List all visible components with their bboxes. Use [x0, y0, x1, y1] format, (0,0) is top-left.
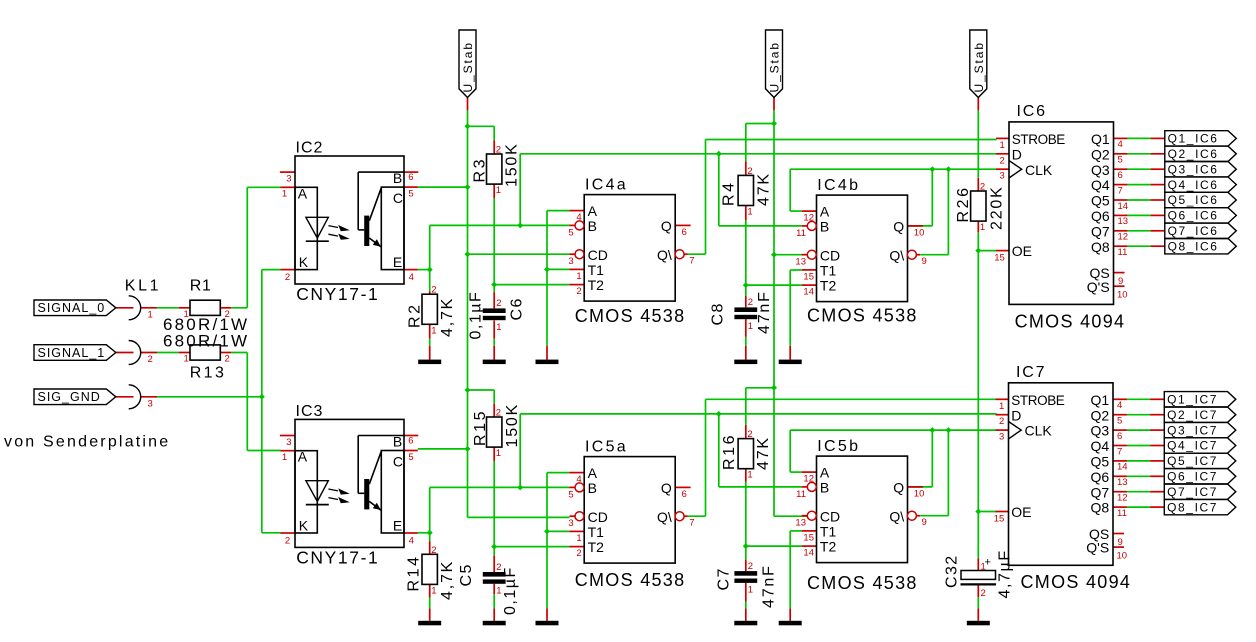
svg-text:Q: Q	[893, 480, 904, 496]
svg-text:OE: OE	[1012, 243, 1032, 259]
svg-text:B: B	[393, 170, 402, 186]
svg-text:12: 12	[1117, 493, 1128, 504]
svg-text:2: 2	[496, 562, 501, 573]
svg-text:5: 5	[568, 227, 573, 238]
svg-text:4: 4	[409, 535, 414, 546]
svg-text:T2: T2	[820, 278, 837, 294]
svg-text:4: 4	[1118, 139, 1123, 150]
svg-text:1: 1	[576, 271, 581, 282]
svg-text:A: A	[298, 185, 308, 201]
svg-text:IC7: IC7	[1016, 364, 1046, 381]
svg-text:Q8: Q8	[1091, 239, 1110, 255]
svg-text:B: B	[393, 434, 402, 450]
svg-text:12: 12	[803, 213, 814, 224]
svg-text:13: 13	[1118, 216, 1129, 227]
svg-text:SIGNAL_1: SIGNAL_1	[38, 346, 106, 360]
svg-text:Q8_IC6: Q8_IC6	[1168, 239, 1219, 253]
svg-text:4: 4	[1117, 400, 1122, 411]
svg-text:STROBE: STROBE	[1011, 393, 1065, 408]
svg-text:10: 10	[914, 228, 925, 239]
svg-text:Q1: Q1	[1091, 392, 1110, 408]
svg-text:B: B	[820, 219, 829, 235]
svg-text:T1: T1	[820, 263, 837, 279]
svg-text:Q7: Q7	[1091, 484, 1110, 500]
svg-text:R13: R13	[190, 364, 227, 381]
svg-text:+: +	[985, 557, 991, 569]
svg-text:CLK: CLK	[1025, 423, 1053, 439]
svg-text:KL1: KL1	[125, 278, 161, 295]
svg-text:9: 9	[1118, 537, 1123, 548]
svg-text:6: 6	[682, 489, 687, 500]
svg-text:Q: Q	[661, 218, 672, 234]
svg-text:Q3_IC6: Q3_IC6	[1168, 162, 1219, 176]
svg-text:Q5_IC7: Q5_IC7	[1167, 454, 1218, 468]
svg-text:6: 6	[408, 172, 413, 183]
svg-text:7: 7	[689, 255, 694, 266]
svg-text:4: 4	[576, 212, 581, 223]
svg-text:CMOS 4538: CMOS 4538	[575, 570, 686, 590]
svg-text:7: 7	[1118, 185, 1123, 196]
svg-text:5: 5	[408, 189, 413, 200]
svg-text:U_Stab: U_Stab	[461, 41, 475, 92]
svg-text:Q5: Q5	[1091, 193, 1110, 209]
svg-text:CMOS 4538: CMOS 4538	[807, 306, 918, 326]
svg-text:1: 1	[980, 222, 985, 233]
svg-text:6: 6	[1117, 431, 1122, 442]
svg-text:U_Stab: U_Stab	[972, 41, 986, 92]
svg-text:Q3_IC7: Q3_IC7	[1167, 423, 1218, 437]
svg-text:1: 1	[747, 470, 752, 481]
svg-text:Q4: Q4	[1091, 177, 1110, 193]
svg-text:Q\: Q\	[889, 247, 904, 263]
svg-text:Q2: Q2	[1091, 407, 1110, 423]
svg-text:Q4_IC6: Q4_IC6	[1168, 178, 1219, 192]
svg-text:14: 14	[1118, 201, 1129, 212]
svg-text:B: B	[820, 480, 829, 496]
svg-text:Q6: Q6	[1091, 208, 1110, 224]
svg-text:10: 10	[914, 489, 925, 500]
svg-text:IC4b: IC4b	[817, 177, 860, 194]
svg-text:1: 1	[148, 309, 153, 320]
svg-text:2: 2	[148, 354, 153, 365]
svg-text:K: K	[299, 254, 309, 270]
svg-text:D: D	[1011, 407, 1021, 423]
svg-text:T2: T2	[588, 539, 605, 555]
svg-text:C: C	[393, 453, 403, 469]
svg-text:3: 3	[286, 174, 291, 185]
svg-text:Q'S: Q'S	[1086, 540, 1109, 556]
svg-text:2: 2	[285, 536, 290, 547]
svg-text:Q6: Q6	[1091, 469, 1110, 485]
svg-text:Q1_IC7: Q1_IC7	[1167, 393, 1218, 407]
svg-text:14: 14	[803, 548, 814, 559]
svg-text:15: 15	[803, 271, 814, 282]
svg-text:680R/1W: 680R/1W	[163, 332, 249, 351]
svg-text:K: K	[299, 518, 309, 534]
svg-text:3: 3	[568, 518, 573, 529]
svg-text:CD: CD	[820, 247, 840, 263]
svg-text:2: 2	[496, 298, 501, 309]
svg-text:1: 1	[748, 321, 753, 332]
svg-text:SIGNAL_0: SIGNAL_0	[38, 301, 106, 315]
svg-text:U_Stab: U_Stab	[768, 41, 782, 92]
svg-text:1: 1	[282, 189, 287, 200]
svg-text:CMOS 4538: CMOS 4538	[807, 573, 918, 593]
svg-text:3: 3	[568, 256, 573, 267]
svg-text:11: 11	[1117, 508, 1127, 519]
svg-text:2: 2	[748, 297, 753, 308]
svg-text:Q\: Q\	[889, 508, 904, 524]
svg-text:C: C	[393, 190, 403, 206]
svg-text:Q8: Q8	[1091, 500, 1110, 516]
svg-text:A: A	[588, 203, 598, 219]
svg-text:R26: R26	[955, 185, 972, 222]
svg-text:R3: R3	[472, 157, 489, 183]
svg-text:2: 2	[496, 408, 501, 419]
svg-text:4: 4	[409, 272, 414, 283]
svg-text:9: 9	[1118, 276, 1123, 287]
svg-text:2: 2	[496, 145, 501, 156]
svg-text:11: 11	[796, 489, 806, 500]
svg-text:2: 2	[431, 545, 436, 556]
svg-text:B: B	[588, 218, 597, 234]
svg-text:Q4_IC7: Q4_IC7	[1167, 439, 1218, 453]
svg-text:R4: R4	[721, 180, 738, 206]
svg-text:Q6_IC6: Q6_IC6	[1168, 209, 1219, 223]
svg-text:1: 1	[282, 452, 287, 463]
svg-text:9: 9	[922, 517, 927, 528]
svg-text:1: 1	[748, 585, 753, 596]
svg-text:Q2_IC6: Q2_IC6	[1168, 147, 1219, 161]
svg-text:2: 2	[225, 354, 230, 365]
svg-text:Q7: Q7	[1091, 223, 1110, 239]
svg-text:1: 1	[747, 207, 752, 218]
svg-text:1: 1	[496, 185, 501, 196]
svg-text:R14: R14	[406, 554, 423, 591]
svg-text:CLK: CLK	[1025, 162, 1053, 178]
svg-text:IC5b: IC5b	[817, 438, 860, 455]
svg-text:13: 13	[795, 518, 806, 529]
svg-text:CMOS 4094: CMOS 4094	[1021, 572, 1132, 592]
svg-text:C5: C5	[458, 563, 475, 586]
svg-text:220K: 220K	[989, 185, 1006, 230]
svg-text:15: 15	[994, 514, 1005, 525]
svg-text:12: 12	[1118, 232, 1129, 243]
svg-text:T1: T1	[820, 524, 837, 540]
svg-text:Q: Q	[661, 480, 672, 496]
svg-text:2: 2	[576, 286, 581, 297]
svg-text:E: E	[393, 254, 402, 270]
svg-text:150K: 150K	[504, 403, 521, 448]
svg-text:14: 14	[1117, 462, 1128, 473]
svg-text:Q2: Q2	[1091, 146, 1110, 162]
svg-text:Q\: Q\	[657, 509, 672, 525]
svg-text:3: 3	[148, 398, 153, 409]
svg-text:47nF: 47nF	[761, 564, 778, 608]
svg-text:13: 13	[1117, 477, 1128, 488]
svg-text:10: 10	[1117, 290, 1128, 301]
svg-text:Q3: Q3	[1091, 423, 1110, 439]
svg-text:R2: R2	[407, 302, 424, 328]
svg-text:5: 5	[568, 489, 573, 500]
svg-text:Q7_IC6: Q7_IC6	[1168, 224, 1219, 238]
svg-text:4,7K: 4,7K	[439, 560, 456, 600]
svg-text:1: 1	[184, 354, 189, 365]
svg-text:47nF: 47nF	[756, 290, 773, 334]
svg-text:IC6: IC6	[1017, 103, 1047, 120]
svg-text:T1: T1	[588, 262, 605, 278]
svg-text:1: 1	[496, 322, 501, 333]
svg-text:47K: 47K	[756, 172, 773, 206]
svg-text:6: 6	[1118, 170, 1123, 181]
svg-text:Q1: Q1	[1091, 131, 1110, 147]
svg-text:2: 2	[748, 561, 753, 572]
svg-text:C8: C8	[710, 302, 727, 325]
svg-text:12: 12	[803, 474, 814, 485]
svg-text:9: 9	[922, 256, 927, 267]
svg-text:2: 2	[431, 285, 436, 296]
svg-text:4,7µF: 4,7µF	[997, 549, 1014, 598]
svg-text:A: A	[820, 465, 830, 481]
svg-text:von Senderplatine: von Senderplatine	[4, 434, 170, 451]
svg-text:Q1_IC6: Q1_IC6	[1168, 132, 1219, 146]
svg-text:CMOS 4094: CMOS 4094	[1015, 311, 1126, 331]
svg-text:1: 1	[496, 448, 501, 459]
svg-text:Q2_IC7: Q2_IC7	[1167, 408, 1218, 422]
svg-text:3: 3	[1000, 171, 1005, 182]
svg-text:CNY17-1: CNY17-1	[296, 284, 379, 304]
svg-text:6: 6	[682, 227, 687, 238]
svg-text:11: 11	[796, 228, 806, 239]
svg-text:C7: C7	[716, 567, 733, 590]
svg-text:2: 2	[1000, 155, 1005, 166]
svg-text:6: 6	[408, 436, 413, 447]
svg-text:Q4: Q4	[1091, 438, 1110, 454]
svg-text:11: 11	[1118, 247, 1128, 258]
svg-text:IC3: IC3	[296, 403, 324, 420]
svg-text:T2: T2	[820, 539, 837, 555]
svg-text:A: A	[588, 465, 598, 481]
svg-text:4,7K: 4,7K	[439, 297, 456, 337]
svg-text:Q6_IC7: Q6_IC7	[1167, 470, 1218, 484]
svg-text:R15: R15	[472, 409, 489, 446]
svg-text:CD: CD	[820, 508, 840, 524]
svg-text:Q5: Q5	[1091, 454, 1110, 470]
svg-text:1: 1	[999, 401, 1004, 412]
svg-text:10: 10	[1117, 551, 1128, 562]
svg-text:Q8_IC7: Q8_IC7	[1167, 500, 1218, 514]
svg-text:CD: CD	[588, 247, 608, 263]
svg-text:1: 1	[431, 325, 436, 336]
svg-text:Q\: Q\	[657, 247, 672, 263]
svg-text:Q: Q	[893, 219, 904, 235]
svg-text:T2: T2	[588, 277, 605, 293]
svg-text:2: 2	[285, 272, 290, 283]
svg-text:CMOS 4538: CMOS 4538	[575, 306, 686, 326]
svg-text:2: 2	[576, 548, 581, 559]
svg-text:2: 2	[747, 166, 752, 177]
svg-text:C6: C6	[509, 297, 526, 320]
svg-text:IC2: IC2	[296, 140, 324, 157]
svg-text:Q5_IC6: Q5_IC6	[1168, 193, 1219, 207]
svg-text:T1: T1	[588, 524, 605, 540]
svg-text:15: 15	[803, 532, 814, 543]
svg-text:14: 14	[803, 287, 814, 298]
svg-text:150K: 150K	[504, 142, 521, 187]
svg-text:4: 4	[576, 474, 581, 485]
svg-text:R16: R16	[721, 433, 738, 470]
svg-text:B: B	[588, 480, 597, 496]
svg-text:3: 3	[286, 437, 291, 448]
svg-text:1: 1	[1000, 140, 1005, 151]
svg-text:5: 5	[1117, 416, 1122, 427]
svg-text:0,1µF: 0,1µF	[502, 566, 519, 615]
svg-text:CD: CD	[588, 509, 608, 525]
svg-text:Q3: Q3	[1091, 162, 1110, 178]
svg-text:7: 7	[689, 517, 694, 528]
svg-text:A: A	[298, 449, 308, 465]
svg-text:2: 2	[980, 182, 985, 193]
svg-text:A: A	[820, 204, 830, 220]
svg-text:CNY17-1: CNY17-1	[296, 547, 379, 567]
svg-text:47K: 47K	[755, 436, 772, 470]
svg-text:15: 15	[994, 253, 1005, 264]
svg-text:Q7_IC7: Q7_IC7	[1167, 485, 1218, 499]
svg-text:SIG_GND: SIG_GND	[38, 390, 101, 404]
svg-text:2: 2	[981, 588, 986, 599]
svg-text:R1: R1	[190, 278, 212, 295]
svg-text:5: 5	[1118, 155, 1123, 166]
svg-text:1: 1	[496, 586, 501, 597]
svg-text:D: D	[1012, 146, 1022, 162]
svg-text:E: E	[393, 518, 402, 534]
svg-text:OE: OE	[1011, 504, 1031, 520]
svg-text:2: 2	[747, 429, 752, 440]
svg-text:STROBE: STROBE	[1012, 132, 1066, 147]
svg-text:7: 7	[1117, 446, 1122, 457]
svg-text:0,1µF: 0,1µF	[468, 291, 485, 340]
svg-text:2: 2	[999, 416, 1004, 427]
svg-text:IC4a: IC4a	[585, 176, 628, 193]
svg-text:IC5a: IC5a	[585, 438, 628, 455]
svg-text:Q'S: Q'S	[1087, 279, 1110, 295]
svg-text:C32: C32	[944, 554, 961, 588]
svg-text:13: 13	[795, 257, 806, 268]
svg-text:3: 3	[999, 432, 1004, 443]
svg-text:1: 1	[431, 585, 436, 596]
svg-text:5: 5	[408, 452, 413, 463]
svg-text:1: 1	[576, 533, 581, 544]
